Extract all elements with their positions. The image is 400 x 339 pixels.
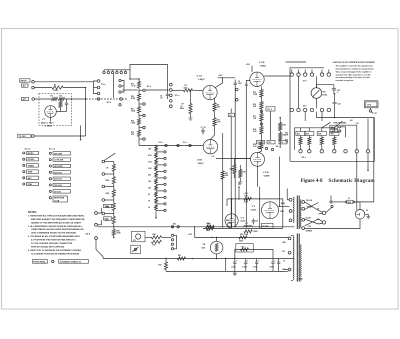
svg-text:C26: C26 xyxy=(337,103,340,105)
wire stubs xyxy=(305,112,322,121)
svg-text:C34: C34 xyxy=(308,225,311,228)
svg-text:S2 e: S2 e xyxy=(276,146,280,148)
svg-text:+325: +325 xyxy=(188,234,192,236)
contact xyxy=(139,126,145,129)
label C34 xyxy=(308,225,311,228)
label V1 type xyxy=(41,122,54,127)
svg-text:S1 a: S1 a xyxy=(101,84,106,86)
svg-text:390: 390 xyxy=(148,181,151,183)
legend row 600 OHM xyxy=(49,152,70,156)
notes line xyxy=(28,235,80,238)
resistor R44 xyxy=(244,230,258,236)
svg-text:B14: B14 xyxy=(173,223,176,226)
contact xyxy=(139,138,145,141)
ground xyxy=(233,271,237,275)
label J3 xyxy=(366,210,368,212)
transformer T2 core xyxy=(297,234,299,282)
caution line xyxy=(336,65,373,68)
resistor ladder 18K xyxy=(148,146,158,151)
svg-text:47K: 47K xyxy=(131,133,135,136)
node xyxy=(319,211,326,215)
wire xyxy=(121,81,124,93)
wire xyxy=(35,98,52,100)
svg-text:YELLOW: YELLOW xyxy=(306,200,313,202)
resistor ladder 8.2K xyxy=(148,153,158,158)
tube V1 xyxy=(45,106,57,118)
svg-text:R2: R2 xyxy=(54,84,56,86)
wire xyxy=(190,90,203,91)
resistor R18 xyxy=(253,127,263,135)
resistor ladder 3.9K xyxy=(148,159,158,164)
capacitor C31 xyxy=(277,259,280,272)
resistor ladder 390 xyxy=(148,179,158,184)
contact xyxy=(156,164,166,166)
contact xyxy=(156,183,166,185)
label yellow xyxy=(306,200,313,202)
svg-text:LESS OTHERWISE NOTED ON THE DI: LESS OTHERWISE NOTED ON THE DIAGRAM xyxy=(31,232,76,235)
switch S2a contacts xyxy=(299,150,370,153)
contact xyxy=(339,126,341,132)
potentiometer R28 xyxy=(230,159,236,179)
wire long xyxy=(367,153,368,171)
label red t2 xyxy=(283,242,287,244)
svg-text:82: 82 xyxy=(148,194,150,196)
wire xyxy=(286,189,288,200)
wire xyxy=(286,61,307,63)
svg-text:secondary winding is left open: secondary winding is left open or short xyxy=(336,76,371,79)
wire xyxy=(365,213,369,215)
svg-text:2. ALL RESISTANCE VALUES GIVEN: 2. ALL RESISTANCE VALUES GIVEN IN OHMS A… xyxy=(28,225,83,228)
label CRO xyxy=(18,134,31,138)
resistor R51 xyxy=(178,255,186,260)
svg-text:3.9K: 3.9K xyxy=(148,162,152,164)
svg-text:R35: R35 xyxy=(318,134,321,136)
svg-text:250K: 250K xyxy=(131,111,136,113)
resistor R45 xyxy=(112,227,121,238)
wire xyxy=(34,135,85,136)
tube V3B xyxy=(250,72,264,86)
caution line xyxy=(336,76,371,79)
wire stubs xyxy=(104,70,126,72)
resistor ladder 500K xyxy=(106,174,116,187)
label AC xyxy=(22,84,29,88)
notes line xyxy=(31,239,76,242)
svg-text:LO FILTER: LO FILTER xyxy=(54,160,64,162)
resistor R21 xyxy=(131,104,141,116)
svg-text:S1 a-b: S1 a-b xyxy=(25,148,32,150)
capacitor C9 xyxy=(234,80,242,85)
svg-text:S1 f: S1 f xyxy=(303,80,307,82)
label S2a xyxy=(302,157,307,159)
contact xyxy=(156,157,166,159)
resistor R9 xyxy=(213,103,221,111)
svg-text:MICRO: MICRO xyxy=(28,153,35,155)
svg-text:50 KC/S: 50 KC/S xyxy=(54,191,62,193)
capacitor C4 xyxy=(160,94,169,99)
wire bus xyxy=(85,88,87,136)
wire xyxy=(279,206,290,207)
label brown xyxy=(281,211,284,213)
legend row XTAL xyxy=(23,182,39,186)
node xyxy=(319,219,326,224)
legend box schematic xyxy=(59,260,89,264)
wire xyxy=(287,237,289,238)
wire xyxy=(316,85,334,89)
svg-text:½6BQ7: ½6BQ7 xyxy=(260,64,267,68)
capacitor C30D xyxy=(270,259,276,272)
svg-text:ORANGE: ORANGE xyxy=(306,230,313,233)
svg-text:1500: 1500 xyxy=(238,83,242,85)
resistor R24 xyxy=(279,123,286,131)
wire xyxy=(203,199,283,229)
wire grid xyxy=(246,81,250,85)
transformer T1 core xyxy=(297,196,299,230)
node xyxy=(113,226,114,227)
switch S1b contacts xyxy=(119,79,121,93)
svg-text:The amplifier is wired for the: The amplifier is wired for the speaker l… xyxy=(336,65,373,68)
svg-text:A VTVM FROM THE POINT SHOWN DI: A VTVM FROM THE POINT SHOWN DIRECTLY xyxy=(31,239,76,242)
svg-text:+150: +150 xyxy=(246,64,250,66)
switch S2b contacts xyxy=(95,212,98,240)
notes line xyxy=(28,214,85,217)
resistor R29 xyxy=(239,165,246,182)
svg-text:600 OHM: 600 OHM xyxy=(54,153,62,155)
terminal xyxy=(288,237,291,240)
wire mid rail xyxy=(316,112,374,119)
label S2e xyxy=(276,146,280,148)
wire xyxy=(280,117,281,148)
svg-text:S1 b: S1 b xyxy=(107,102,112,104)
svg-text:V 4: V 4 xyxy=(241,216,245,219)
terminal CRO xyxy=(32,135,35,138)
wire plate xyxy=(214,98,216,103)
switch contact xyxy=(171,226,179,228)
wire xyxy=(156,145,203,147)
label V2B xyxy=(197,160,204,166)
svg-text:1 MEG: 1 MEG xyxy=(53,90,59,92)
contact xyxy=(156,190,166,192)
wire xyxy=(270,111,272,140)
resistor R41 xyxy=(207,223,215,231)
resistor R4 xyxy=(59,95,65,101)
svg-text:R4: R4 xyxy=(60,95,62,98)
resistor R31 xyxy=(296,128,305,150)
label S1c xyxy=(147,86,152,88)
resistor R15 xyxy=(253,90,263,98)
legend row RESPONSE xyxy=(49,196,67,203)
capacitor C8 xyxy=(228,113,234,117)
wire xyxy=(129,65,167,94)
wire xyxy=(295,128,335,150)
svg-text:1500: 1500 xyxy=(244,202,248,204)
contact xyxy=(156,170,166,172)
switch S1d contacts xyxy=(165,144,191,146)
wire xyxy=(315,98,317,108)
svg-text:1.5 M: 1.5 M xyxy=(131,86,136,88)
wire xyxy=(278,157,280,207)
wire xyxy=(63,87,86,88)
contact xyxy=(139,89,145,92)
label +22 xyxy=(350,120,353,122)
svg-text:5600: 5600 xyxy=(239,241,243,243)
legend row TAPE xyxy=(23,170,39,174)
notes line xyxy=(31,228,84,231)
legend row 50 KC/S xyxy=(49,190,70,194)
svg-text:QUIRED OF THE AMPLIFIER AS NOT: QUIRED OF THE AMPLIFIER AS NOTED ON CHAR… xyxy=(31,221,82,224)
legend row TUNER xyxy=(23,164,39,168)
svg-text:C30A: C30A xyxy=(231,266,236,269)
resistor R33 xyxy=(305,128,314,150)
ground xyxy=(238,182,242,184)
svg-text:+310: +310 xyxy=(244,193,248,195)
svg-text:6CZ5: 6CZ5 xyxy=(241,221,246,223)
svg-text:15K: 15K xyxy=(225,175,229,177)
svg-text:C14: C14 xyxy=(258,141,261,144)
svg-text:V 2 A: V 2 A xyxy=(197,75,203,78)
node xyxy=(130,78,140,79)
wire xyxy=(145,236,171,238)
notes line xyxy=(31,246,65,249)
label S2b xyxy=(86,234,91,236)
svg-text:C30B: C30B xyxy=(242,267,247,269)
svg-text:V 5 B: V 5 B xyxy=(263,172,269,174)
junction arrow xyxy=(192,258,194,260)
wire xyxy=(172,89,183,91)
input terminal J2 xyxy=(32,98,35,101)
svg-text:+1.6: +1.6 xyxy=(211,156,214,158)
jack J3 xyxy=(355,210,365,220)
switch S1b rotor line xyxy=(86,98,128,100)
label +150 xyxy=(218,75,222,77)
caution line xyxy=(336,73,371,76)
resistor R16 xyxy=(253,102,263,110)
wire grid xyxy=(190,90,192,103)
resistor R50 xyxy=(239,234,247,243)
wire xyxy=(214,111,216,118)
svg-text:F1: F1 xyxy=(348,198,350,200)
wire xyxy=(210,126,214,139)
svg-text:V 1: V 1 xyxy=(42,119,46,121)
contact xyxy=(236,88,239,101)
svg-text:GREEN: GREEN xyxy=(307,207,312,209)
svg-text:NOTES:: NOTES: xyxy=(28,212,37,214)
resistor R3 xyxy=(51,96,58,101)
resistor R19 xyxy=(131,79,141,90)
svg-text:R50: R50 xyxy=(240,234,243,236)
label V1 xyxy=(42,119,46,121)
svg-text:250 KC/S: 250 KC/S xyxy=(54,179,63,181)
svg-text:or 6BS8: or 6BS8 xyxy=(45,125,52,127)
wire xyxy=(56,99,60,112)
neon lamp NE1 xyxy=(226,220,232,227)
switch box S2 xyxy=(290,68,374,162)
contact xyxy=(119,104,121,106)
svg-text:S1 c-d: S1 c-d xyxy=(49,148,56,150)
svg-text:470K: 470K xyxy=(117,232,122,235)
wire xyxy=(50,117,52,121)
svg-text:180: 180 xyxy=(148,188,151,190)
svg-text:V 3 B: V 3 B xyxy=(259,62,265,64)
svg-text:M1: M1 xyxy=(323,91,327,93)
switch S1f contacts xyxy=(290,73,330,76)
svg-text:TP: TP xyxy=(375,113,378,115)
svg-text:J3: J3 xyxy=(366,210,368,212)
wire xyxy=(222,179,224,227)
wire xyxy=(80,126,81,141)
caution line xyxy=(336,79,355,82)
svg-text:6X4: 6X4 xyxy=(202,246,206,249)
svg-text:6BQ7 or 6BZ7: 6BQ7 or 6BZ7 xyxy=(41,122,54,124)
filter box xyxy=(262,223,274,228)
wire xyxy=(334,93,335,102)
wire xyxy=(97,208,101,213)
svg-text:+22: +22 xyxy=(350,120,353,122)
terminal xyxy=(289,210,292,213)
wire long xyxy=(231,109,232,228)
resistor ladder 250K xyxy=(106,187,116,201)
svg-text:C30D: C30D xyxy=(270,267,275,269)
svg-text:±1 DB: ±1 DB xyxy=(54,201,60,203)
svg-text:BLUE: BLUE xyxy=(281,203,285,205)
svg-text:LOW: LOW xyxy=(331,131,335,133)
resistor R46 xyxy=(152,233,162,239)
svg-text:5600: 5600 xyxy=(254,231,258,233)
svg-text:HEAD PHONES: HEAD PHONES xyxy=(334,122,348,125)
svg-text:100 KC/S: 100 KC/S xyxy=(54,185,63,187)
resistor R25 xyxy=(279,133,286,141)
V1 enclosure (dashed) xyxy=(39,94,72,126)
label 16 ohm xyxy=(317,219,321,221)
capacitor C7 xyxy=(201,127,206,135)
wire xyxy=(251,66,253,73)
svg-text:S2 a: S2 a xyxy=(302,157,307,159)
svg-text:1 M: 1 M xyxy=(106,167,109,169)
switch contact xyxy=(102,173,114,176)
contact xyxy=(139,103,145,106)
resistor ladder 39 xyxy=(148,198,158,203)
svg-text:operated into other load value: operated into other load values, or if t… xyxy=(336,73,371,76)
svg-text:12K: 12K xyxy=(253,118,257,120)
svg-text:SCHEMATIC SYMBOL S2: SCHEMATIC SYMBOL S2 xyxy=(60,260,81,263)
wire xyxy=(257,166,259,186)
wire long xyxy=(246,85,247,227)
ground xyxy=(189,118,193,120)
resistor R40 xyxy=(244,195,252,204)
wire xyxy=(211,237,217,242)
switch contact xyxy=(102,212,114,215)
svg-text:V2 B: V2 B xyxy=(197,160,202,162)
svg-text:FRONT PANEL: FRONT PANEL xyxy=(34,260,47,263)
resistor R19 xyxy=(253,142,263,150)
svg-text:WITH NO SIGNAL INPUT APPLIED: WITH NO SIGNAL INPUT APPLIED xyxy=(31,246,65,249)
wire xyxy=(218,77,236,79)
transformer T2 primary xyxy=(291,236,294,281)
svg-text:500K: 500K xyxy=(106,180,111,182)
wire xyxy=(190,114,192,118)
wire xyxy=(330,196,345,203)
svg-text:250K: 250K xyxy=(106,193,111,195)
legend row PHONO xyxy=(23,158,39,162)
notes line xyxy=(31,252,80,255)
figure caption xyxy=(301,179,376,184)
tube V5 xyxy=(262,202,279,219)
notes line xyxy=(28,225,83,228)
svg-text:5V: 5V xyxy=(283,261,285,263)
svg-text:1.8K: 1.8K xyxy=(148,168,152,170)
wire xyxy=(305,219,360,229)
contact xyxy=(156,203,166,205)
svg-text:C30C: C30C xyxy=(253,267,258,269)
svg-text:4700: 4700 xyxy=(184,86,188,89)
capacitor C22 xyxy=(252,219,259,225)
svg-text:R37: R37 xyxy=(331,134,334,136)
wire rail1 xyxy=(97,226,294,227)
switch contact xyxy=(102,185,114,188)
svg-text:1. RESISTORS R31 THROUGH R38 A: 1. RESISTORS R31 THROUGH R38 ARE MATCHED… xyxy=(28,214,85,217)
switch S1a top row xyxy=(103,71,127,73)
label S1b xyxy=(107,102,112,104)
svg-text:V 5: V 5 xyxy=(252,206,256,208)
wire rail2 xyxy=(194,226,288,237)
svg-text:TAPE: TAPE xyxy=(28,171,33,174)
label +15 xyxy=(356,123,359,125)
switch S1g contacts xyxy=(290,108,330,111)
notes line xyxy=(31,242,73,245)
svg-text:Tubes may be damaged if the am: Tubes may be damaged if the amplifier is xyxy=(336,70,372,73)
resistor R7 xyxy=(180,104,192,114)
resistor R23 xyxy=(131,128,141,140)
resistor ladder 18 xyxy=(148,205,158,210)
label S1f xyxy=(303,80,307,82)
contact xyxy=(156,151,166,153)
svg-text:RESPONSE: RESPONSE xyxy=(54,198,65,200)
label V2A xyxy=(197,75,205,82)
wire xyxy=(260,97,262,142)
svg-text:82K: 82K xyxy=(217,107,221,109)
svg-text:+: + xyxy=(247,260,248,262)
label S1e xyxy=(183,142,188,144)
test point box xyxy=(365,101,379,108)
svg-text:+150: +150 xyxy=(218,75,222,77)
wire xyxy=(315,76,317,88)
svg-text:TO CRO: TO CRO xyxy=(19,136,27,138)
wire xyxy=(34,81,93,83)
svg-text:+15: +15 xyxy=(356,123,359,125)
label S1a xyxy=(101,84,106,86)
wire long xyxy=(355,118,374,202)
svg-text:470K: 470K xyxy=(131,97,136,100)
resistor R20 xyxy=(131,90,141,104)
label 6.3v xyxy=(282,251,285,253)
contact xyxy=(139,114,145,117)
svg-text:3.9K: 3.9K xyxy=(253,131,257,133)
wire xyxy=(222,133,223,228)
wire xyxy=(97,220,101,225)
svg-text:Schematic Diagram: Schematic Diagram xyxy=(329,179,376,184)
wire rail4 xyxy=(166,258,284,272)
svg-text:.05: .05 xyxy=(160,98,162,100)
switch contact xyxy=(102,199,114,202)
wire xyxy=(34,87,52,89)
svg-text:V6: V6 xyxy=(203,244,206,246)
resistor ladder 1 M xyxy=(106,162,116,175)
svg-text:VIOLET: VIOLET xyxy=(306,218,312,220)
wire xyxy=(369,108,371,110)
label box xyxy=(330,129,338,133)
input terminal J1 top xyxy=(32,81,35,84)
resistor ladder 47K xyxy=(106,214,116,227)
transformer T1 secondary xyxy=(300,200,301,228)
